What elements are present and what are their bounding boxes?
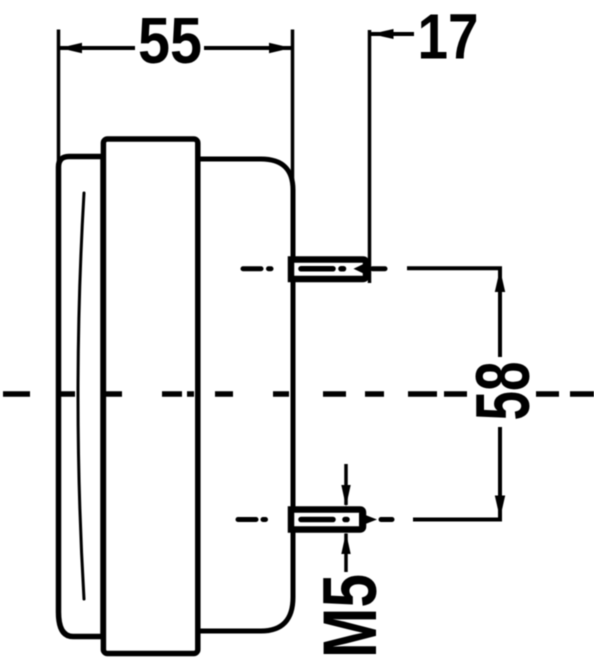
svg-text:58: 58: [461, 362, 546, 421]
svg-text:55: 55: [138, 4, 202, 77]
svg-text:17: 17: [418, 1, 479, 73]
svg-text:M5: M5: [308, 574, 393, 658]
